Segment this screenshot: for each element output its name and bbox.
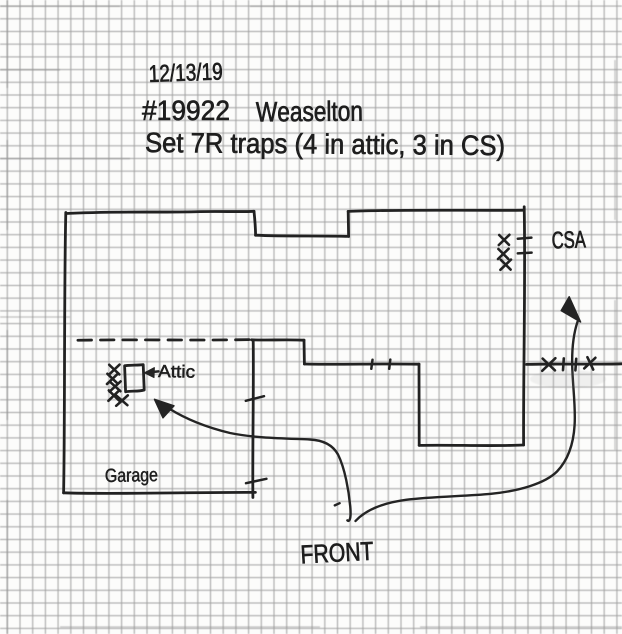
x mark on fence line — [542, 358, 555, 371]
wall: top outer (left section) — [66, 211, 254, 213]
x mark (CSA group) 3 — [500, 260, 511, 270]
text: job number #19922 — [142, 100, 229, 120]
tick on right wall near CSA (upper) — [518, 238, 532, 239]
tick on right wall near CSA (lower) — [518, 251, 532, 254]
arrow to attic: curved shaft from FRONT — [169, 409, 351, 521]
x mark (attic group) 4 — [108, 390, 119, 401]
x mark (attic group) 5 — [116, 395, 128, 405]
text: FRONT — [302, 542, 374, 564]
wall: solid part of middle line — [252, 338, 305, 341]
small arrow pointing at attic square: tail — [147, 371, 159, 372]
arrow to attic: head — [155, 399, 175, 418]
tick on interior wall (lower) — [246, 479, 266, 483]
wall: top outer (right section) — [348, 210, 524, 211]
tick on fence line 1 — [562, 358, 565, 370]
wall: bottom (garage) — [64, 492, 256, 493]
text: Set 7R traps (4 in attic, 3 in CS) — [146, 132, 503, 161]
small arrow pointing at attic square: head — [144, 368, 154, 378]
text: CSA — [552, 231, 586, 249]
text: Garage — [106, 468, 158, 486]
wall: left outer — [64, 213, 66, 493]
x mark (attic group) 3 — [110, 381, 121, 391]
wall: step up to dashed line — [303, 340, 306, 364]
wall: dashed interior line — [72, 338, 250, 342]
arrow to CSA/back: head — [561, 297, 580, 322]
text: Weaselton — [256, 100, 362, 121]
x mark (attic group) 1 — [109, 365, 120, 375]
x mark on fence line (right) — [584, 357, 595, 369]
wall: recessed top section — [256, 235, 349, 236]
door tick on y364 wall (right) — [389, 360, 390, 369]
wall: notch vertical — [418, 364, 421, 445]
tick on fence line 2 — [574, 359, 577, 371]
scan smudge under fence marks — [530, 370, 606, 388]
text: Attic — [158, 364, 195, 377]
fence/property line outside right wall — [527, 362, 622, 365]
x mark (CSA group) 2 — [498, 249, 509, 259]
wall: right outer — [524, 207, 525, 445]
arrow to CSA/back: curved shaft from FRONT — [356, 322, 578, 522]
stray pen dash near FRONT curve — [335, 503, 340, 505]
wall: bottom of right wing — [419, 444, 523, 447]
attic hatch square — [125, 365, 145, 392]
wall: step up at top — [347, 211, 350, 236]
wall: horizontal at y364 with door opening — [304, 363, 419, 366]
wall: interior vertical (garage right) — [251, 341, 254, 498]
door tick on y364 wall (left) — [371, 360, 372, 369]
x mark (CSA group) 1 — [499, 235, 510, 245]
wall: step down at top — [254, 211, 256, 235]
text: date 12/13/19 — [150, 62, 222, 82]
tick on interior wall (upper) — [246, 396, 264, 401]
x mark (attic group) 2 — [107, 374, 118, 384]
